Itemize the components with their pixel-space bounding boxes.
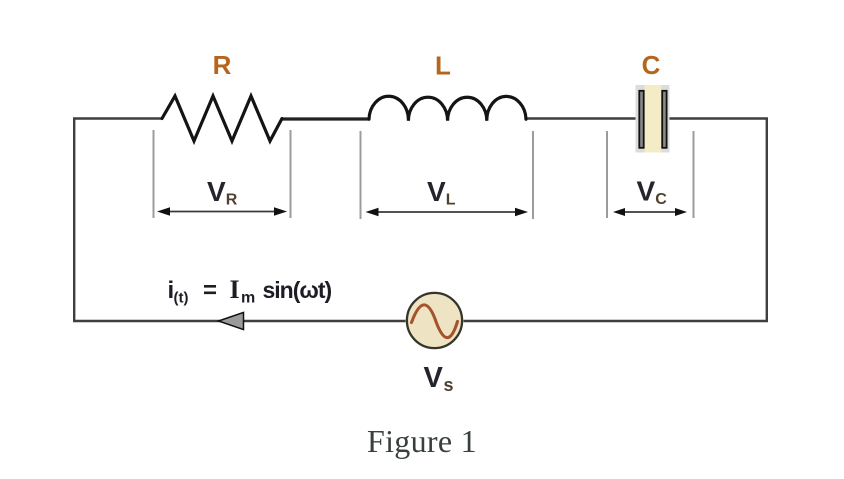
svg-text:I: I bbox=[230, 275, 240, 304]
svg-text:(t): (t) bbox=[174, 290, 189, 307]
svg-text:R: R bbox=[213, 50, 232, 80]
svg-text:=: = bbox=[203, 277, 217, 304]
svg-text:L: L bbox=[435, 51, 451, 81]
svg-text:C: C bbox=[642, 50, 661, 80]
svg-text:s: s bbox=[444, 375, 454, 395]
svg-text:sin(ωt): sin(ωt) bbox=[263, 277, 332, 303]
svg-text:Figure 1: Figure 1 bbox=[367, 423, 477, 459]
svg-text:m: m bbox=[241, 290, 255, 307]
svg-text:V: V bbox=[424, 362, 444, 394]
